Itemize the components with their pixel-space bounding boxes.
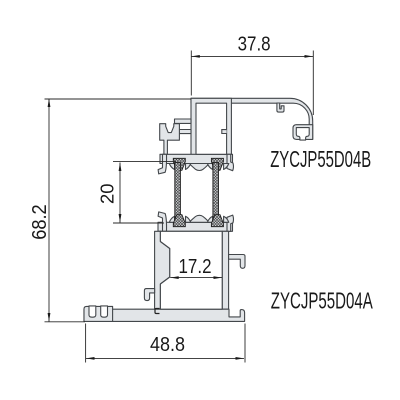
profile A left wall with chamfered bulge	[155, 231, 170, 309]
dim 37.8 line	[191, 55, 313, 57]
dim 68.2 line	[48, 99, 50, 322]
profile A top plate	[158, 222, 233, 231]
arrowheads 17.2	[170, 276, 179, 279]
dim 20 extension lines	[113, 161, 176, 223]
dim 68.2 extension lines	[45, 99, 192, 322]
profile B main cavity	[196, 103, 227, 154]
profile B right wall nub	[222, 130, 227, 134]
profile A right wall	[222, 231, 228, 309]
dim 20 line	[119, 163, 121, 223]
thermal break strip left	[173, 158, 185, 226]
profile A plate centre tab	[187, 215, 210, 222]
profile A plate left curl	[158, 212, 166, 231]
dim 17.2 line	[170, 277, 222, 279]
profile B plate right curl	[227, 154, 233, 170]
profile A base slab	[84, 309, 245, 321]
svg-text:ZYCJP55D04B: ZYCJP55D04B	[270, 146, 371, 172]
svg-text:37.8: 37.8	[238, 33, 271, 55]
profile B underside hook	[277, 103, 284, 112]
svg-text:ZYCJP55D04A: ZYCJP55D04A	[271, 288, 373, 314]
dim 37.8 extension lines	[191, 51, 313, 116]
svg-text:20: 20	[97, 184, 118, 205]
profile B left appendage with U-notch and post	[160, 124, 180, 155]
arrowheads 37.8	[191, 55, 200, 58]
dim 48.8 extension lines	[86, 324, 245, 363]
arrowheads 20	[119, 163, 122, 172]
profile B plate left curl	[158, 154, 166, 174]
profile A lower left hook	[144, 289, 154, 301]
arrowheads 48.8	[86, 357, 95, 360]
profile B plate centre tab	[187, 164, 210, 171]
profile A base left slot block	[84, 306, 113, 321]
dim 48.8 line	[86, 357, 244, 359]
svg-text:68.2: 68.2	[29, 204, 51, 240]
profile B strip grip fangs	[169, 164, 174, 170]
arrowheads 68.2	[48, 99, 51, 108]
profile A main cavity	[160, 231, 222, 309]
svg-text:48.8: 48.8	[150, 334, 185, 356]
profile B main box	[191, 98, 231, 163]
profile B top wall and curved nose arm	[191, 98, 313, 139]
profile B bottom plate	[160, 154, 233, 163]
profile B left shelf	[179, 130, 191, 134]
profile B gasket C-groove block	[293, 125, 313, 140]
profile A plate right curl	[227, 215, 233, 231]
svg-text:17.2: 17.2	[179, 256, 212, 278]
profile B gasket channel opening	[296, 128, 309, 141]
base slot notch left	[89, 306, 96, 317]
thermal break strip right	[211, 158, 223, 226]
profile A upper right hook	[229, 255, 245, 269]
profile A screw flute notch	[155, 309, 160, 314]
profile A strip grip fangs	[169, 216, 174, 222]
base slot notch right	[101, 306, 108, 317]
profile B left step ledge	[175, 119, 192, 123]
